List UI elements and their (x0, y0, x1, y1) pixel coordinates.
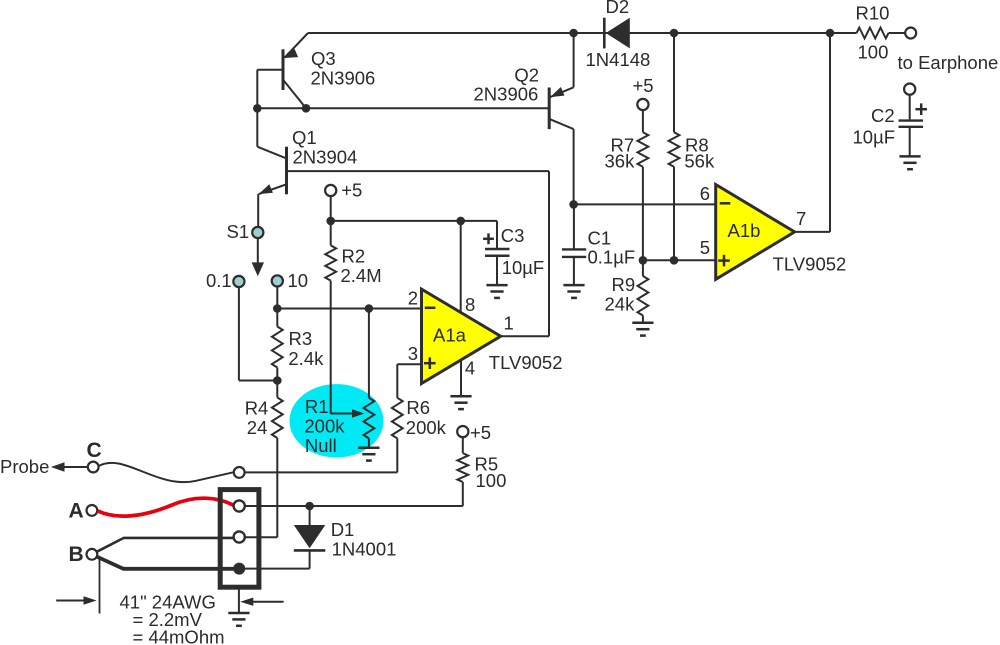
wire R2 top stub (330, 221, 332, 246)
transistor Q3 emitter wire (285, 33, 309, 58)
ground connector (228, 613, 249, 626)
value 100 (R10) (858, 42, 889, 63)
terminal C2 top (904, 84, 915, 95)
resistor R2 (325, 245, 336, 280)
transistor Q2 emitter arrow (550, 87, 564, 97)
junction node A1b output feedback (826, 29, 835, 38)
wire R9 bottom stub (642, 316, 644, 323)
terminal C-row (234, 467, 245, 478)
minus sign A1b (720, 202, 731, 205)
label R7 (611, 135, 635, 156)
transistor Q1 collector wire (287, 170, 550, 172)
wire A red lead (97, 498, 233, 516)
pin 8 label (465, 294, 475, 315)
switch throw terminal 0.1 (233, 276, 244, 287)
wire connector ground stub (238, 587, 240, 614)
resistor R3 (272, 327, 283, 368)
svg-text:5: 5 (700, 237, 710, 258)
wire R7 bottom (642, 167, 644, 261)
wire A1b pin5 net (643, 259, 716, 261)
junction node Q2 emitter / D2 (569, 29, 578, 38)
svg-text:Q1: Q1 (292, 127, 317, 148)
svg-text:24: 24 (247, 417, 268, 438)
minus sign A1a (425, 307, 436, 310)
terminal B (87, 549, 98, 560)
wire A-row net (245, 505, 463, 507)
dimension arrow left (56, 596, 96, 604)
label TLV9052 (A1b) (773, 254, 847, 275)
wire +5 rail to C3 (331, 220, 497, 222)
plus sign A1a (424, 357, 436, 369)
svg-text:3: 3 (408, 343, 418, 364)
value 200k (R1) (304, 416, 345, 437)
plus sign A1b (718, 255, 730, 267)
wire R8 top (673, 33, 675, 132)
wire A1a output to Q1 collector loop (501, 171, 549, 336)
label C3 (501, 225, 525, 246)
wire C2 bottom (909, 127, 911, 157)
label R3 (289, 328, 313, 349)
svg-text:D1: D1 (331, 519, 355, 540)
wire R5 bottom (462, 482, 464, 506)
junction node R9 top (639, 256, 648, 265)
connector pin B row (234, 531, 245, 542)
wire Q3/Q1 to Q2 base rail (257, 107, 549, 109)
wire C3 bottom stub (496, 256, 498, 285)
wire R9 top stub (642, 260, 644, 276)
label TLV9052 (A1a) (489, 352, 563, 373)
terminal +5 for R5 (457, 426, 468, 437)
terminal C (88, 462, 99, 473)
transistor Q2 collector wire (550, 119, 573, 204)
value 2.4M (R2) (341, 265, 382, 286)
pin 7 label (796, 208, 806, 229)
wire R2 +5 stub (330, 196, 332, 221)
label +5 (R2) (341, 180, 362, 201)
svg-text:Q3: Q3 (311, 48, 336, 69)
diode D2 1N4148 (604, 18, 630, 49)
wire A1b output (795, 33, 830, 232)
wire C curvy lead (99, 463, 234, 482)
ground C2 (899, 156, 920, 169)
resistor R5 (457, 453, 468, 482)
wire top supply rail (308, 32, 905, 34)
junction node C1 top (569, 200, 578, 209)
svg-text:2.4k: 2.4k (288, 348, 324, 369)
wire C2 top (909, 95, 911, 120)
pin 1 label (504, 313, 514, 334)
transistor Q3 base wire (257, 70, 283, 109)
svg-text:2N3906: 2N3906 (474, 84, 539, 105)
svg-text:36k: 36k (605, 150, 636, 171)
svg-text:0.1µF: 0.1µF (588, 247, 636, 268)
label 41in 24AWG (120, 592, 216, 613)
wire 0.1 terminal down and right (239, 287, 277, 380)
label R2 (342, 245, 366, 266)
wire R4 to connector row B1 (245, 438, 278, 537)
wire R2 bottom to R1 wiper (331, 281, 354, 414)
pin 5 label (700, 237, 710, 258)
ground C3 (486, 285, 507, 298)
capacitor C1 0.1uF (562, 249, 586, 257)
highlight ellipse around R1 (290, 384, 384, 457)
resistor R10 (857, 28, 889, 39)
label R6 (406, 397, 430, 418)
label C1 (588, 228, 612, 249)
value 10uF (C3) (502, 257, 545, 278)
capacitor C3 10uF (485, 249, 510, 256)
value 24k (R9) (605, 293, 636, 314)
label B (69, 543, 84, 566)
wire Q1 emitter to S1 (257, 194, 259, 227)
junction node A1a pin8 (456, 217, 465, 226)
ground R9 (632, 323, 653, 336)
probe arrow (51, 462, 88, 472)
svg-text:6: 6 (700, 183, 710, 204)
junction node R1 top (365, 304, 374, 313)
transistor Q1 base wire (257, 108, 285, 158)
label to Earphone (898, 52, 999, 73)
svg-text:7: 7 (796, 208, 806, 229)
svg-text:200k: 200k (304, 416, 345, 437)
value 36k (R7) (605, 150, 636, 171)
value 0.1uF (C1) (588, 247, 636, 268)
pin 4 label (465, 358, 475, 379)
svg-text:C3: C3 (501, 225, 525, 246)
junction node Q3 base (253, 104, 262, 113)
label R1 (305, 396, 329, 417)
junction node R8 top (670, 29, 679, 38)
wire B upper lead (97, 538, 234, 552)
pin 2 label (408, 287, 418, 308)
svg-text:R4: R4 (245, 397, 269, 418)
value 200k (R6) (406, 417, 447, 438)
svg-text:R6: R6 (406, 397, 430, 418)
terminal A (87, 505, 98, 516)
resistor R4 (272, 381, 283, 439)
label Null (R1) (305, 435, 337, 456)
label 0.1 (206, 270, 232, 291)
wire C1 bottom stub (573, 257, 575, 285)
svg-text:A1b: A1b (728, 220, 761, 241)
wire C1 top stub (573, 204, 575, 249)
label S1 (227, 221, 250, 242)
label R4 (245, 397, 269, 418)
wire R8 bottom (673, 167, 675, 261)
svg-text:56k: 56k (684, 150, 715, 171)
terminal to Earphone (905, 28, 916, 39)
svg-text:D2: D2 (606, 0, 630, 17)
svg-text:S1: S1 (227, 221, 250, 242)
svg-text:R2: R2 (342, 245, 366, 266)
wire A1a pin3 to R6 (397, 364, 421, 398)
wire A1a pin4 (460, 360, 462, 396)
svg-text:Q2: Q2 (514, 65, 539, 86)
label +5 (R5) (470, 422, 491, 443)
label R9 (612, 274, 636, 295)
label Q3 (311, 48, 336, 69)
terminal +5 for R7 (637, 99, 648, 110)
label = 2.2mV (133, 609, 203, 630)
svg-text:Probe: Probe (0, 456, 49, 477)
svg-text:Null: Null (305, 435, 337, 456)
wire R7 top stub (642, 110, 644, 132)
junction node +5 rail left (326, 217, 335, 226)
svg-text:A: A (69, 500, 84, 523)
ground C1 (563, 285, 584, 298)
wire R1 bottom stub (368, 438, 370, 447)
svg-text:+5: +5 (633, 75, 654, 96)
pin 6 label (700, 183, 710, 204)
label R5 (475, 454, 499, 475)
label Q1 (292, 127, 317, 148)
polarity + of C3 (483, 233, 494, 244)
label Probe (0, 456, 49, 477)
svg-text:8: 8 (465, 294, 475, 315)
value 56k (R8) (684, 150, 715, 171)
polarity + of C2 (915, 103, 927, 115)
label = 44mOhm (133, 627, 225, 645)
svg-text:10µF: 10µF (502, 257, 545, 278)
switch S1 pole (252, 227, 263, 238)
value 2N3906 (Q2) (474, 84, 539, 105)
transistor Q3 emitter arrow (284, 49, 298, 58)
svg-text:R1: R1 (305, 396, 329, 417)
value 24 (R4) (247, 417, 268, 438)
svg-text:100: 100 (476, 470, 507, 491)
junction node R3/R4 (273, 376, 282, 385)
wire A1b pin6 net (574, 203, 716, 205)
ground R1 (358, 448, 379, 461)
svg-text:1N4001: 1N4001 (332, 538, 397, 559)
wire B lower lead (97, 557, 234, 569)
wire R3 bottom stub (276, 368, 278, 381)
svg-text:200k: 200k (406, 417, 447, 438)
wire shield row to D1 (245, 568, 310, 570)
wire 10 terminal down (276, 287, 278, 309)
ground A1a pin4 (450, 396, 471, 409)
svg-text:0.1: 0.1 (206, 270, 232, 291)
dimension tick below B (99, 560, 101, 614)
label +5 (R7) (633, 75, 654, 96)
svg-text:TLV9052: TLV9052 (489, 352, 563, 373)
wire R5 top stub (462, 437, 464, 453)
value 2N3906 (Q3) (311, 68, 376, 89)
value 2.4k (R3) (288, 348, 324, 369)
resistor R9 (638, 276, 649, 316)
label R8 (685, 135, 709, 156)
svg-text:to Earphone: to Earphone (898, 52, 999, 73)
wire R3 top stub (276, 309, 278, 327)
label A (69, 500, 84, 523)
pin 3 label (408, 343, 418, 364)
wire C3 top stub (496, 221, 498, 249)
value 1N4148 (D2) (586, 49, 651, 70)
transistor Q2 2N3906 base bar (548, 88, 551, 130)
switch throw terminal 10 (272, 275, 283, 286)
junction node D1 anode (305, 502, 314, 511)
svg-text:24k: 24k (605, 293, 636, 314)
svg-text:1N4148: 1N4148 (586, 49, 651, 70)
svg-text:R3: R3 (289, 328, 313, 349)
label R10 (856, 3, 890, 24)
wire R6 bottom to C-row (245, 438, 398, 472)
svg-text:= 44mOhm: = 44mOhm (133, 627, 225, 645)
transistor Q2 emitter wire (550, 33, 573, 97)
label Q2 (514, 65, 539, 86)
svg-text:C2: C2 (871, 105, 895, 126)
svg-text:2.4M: 2.4M (341, 265, 382, 286)
svg-text:2N3906: 2N3906 (311, 68, 376, 89)
svg-text:2: 2 (408, 287, 418, 308)
value 2N3904 (Q1) (293, 147, 358, 168)
dimension arrow right (240, 598, 283, 606)
svg-text:A1a: A1a (433, 325, 467, 346)
transistor Q3 2N3906 base bar (282, 49, 285, 90)
wire A1a pin2 net (277, 308, 421, 310)
transistor Q3 collector wire (284, 80, 307, 108)
svg-text:4: 4 (465, 358, 475, 379)
svg-text:10: 10 (288, 270, 309, 291)
value 100 (R5) (476, 470, 507, 491)
junction node Q3 collector (302, 104, 311, 113)
svg-text:+5: +5 (341, 180, 362, 201)
resistor R8 (669, 132, 680, 166)
connector pin shield (233, 563, 245, 575)
resistor R7 (638, 132, 649, 166)
svg-text:10µF: 10µF (853, 127, 896, 148)
label A1b (728, 220, 761, 241)
wire A1a pin8 (460, 221, 462, 313)
label C (87, 439, 102, 462)
svg-text:R9: R9 (612, 274, 636, 295)
label C2 (871, 105, 895, 126)
svg-text:B: B (69, 543, 84, 566)
svg-text:C: C (87, 439, 102, 462)
junction node 10/R3/pin2 (273, 304, 282, 313)
svg-text:1: 1 (504, 313, 514, 334)
svg-text:R10: R10 (856, 3, 890, 24)
wire R1 top stub (368, 309, 370, 398)
value 10uF (C2) (853, 127, 896, 148)
op-amp A1b (716, 185, 795, 280)
transistor Q1 emitter arrow (259, 184, 273, 194)
transistor Q1 2N3904 base bar (285, 147, 288, 195)
connector pin A row (234, 500, 245, 511)
svg-text:2N3904: 2N3904 (293, 147, 358, 168)
resistor R6 (392, 398, 403, 439)
op-amp A1a (422, 289, 501, 383)
svg-text:TLV9052: TLV9052 (773, 254, 847, 275)
label A1a (433, 325, 467, 346)
label 10 (288, 270, 309, 291)
label D2 (606, 0, 630, 17)
value 1N4001 (D1) (332, 538, 397, 559)
transistor Q1 emitter wire (259, 185, 286, 195)
junction node R8 bottom (670, 256, 679, 265)
svg-text:100: 100 (858, 42, 889, 63)
svg-text:+5: +5 (470, 422, 491, 443)
switch S1 arrow (252, 238, 264, 276)
potentiometer R1 (364, 398, 375, 439)
capacitor C2 10uF (899, 121, 924, 127)
label D1 (331, 519, 355, 540)
terminal +5 for R2 (325, 185, 336, 196)
diode D1 1N4001 (294, 506, 326, 569)
connector box (220, 490, 259, 588)
R1 wiper arrow (352, 409, 364, 418)
